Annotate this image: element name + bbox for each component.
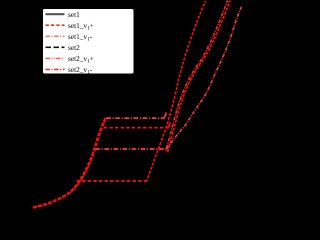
legend sample set1_v1+: [46, 24, 65, 26]
legend box: [43, 9, 135, 75]
legend sample set1: [46, 13, 65, 15]
wire P1 end fleck: [164, 113, 166, 119]
svg-text:set1_v1+: set1_v1+: [68, 21, 94, 32]
svg-text:set1: set1: [68, 10, 80, 19]
legend sample set2: [46, 46, 65, 48]
wire rising curve main (overlapped red curves): [33, 118, 105, 207]
legend sample set2_v1-: [46, 68, 65, 70]
wire steep pair right: [168, 1, 231, 153]
node plateau P3 y=149: [95, 148, 166, 150]
wire P2 end fleck: [169, 123, 171, 128]
wire rising curve echo: [34, 118, 106, 207]
legend labels: [68, 10, 94, 76]
node plateau P4 y=181: [77, 180, 147, 182]
node plateau P2 y=127.7: [104, 127, 169, 129]
legend sample set1_v1-: [46, 35, 65, 37]
wire steep SB from P3 elbow: [167, 7, 242, 149]
node plateau P1 y=118: [106, 117, 164, 119]
legend sample set2_v1+: [46, 57, 65, 59]
svg-text:set2: set2: [68, 43, 80, 52]
wire steep S1 from P4 elbow to top: [147, 1, 206, 181]
wire steep pair left: [166, 1, 228, 153]
